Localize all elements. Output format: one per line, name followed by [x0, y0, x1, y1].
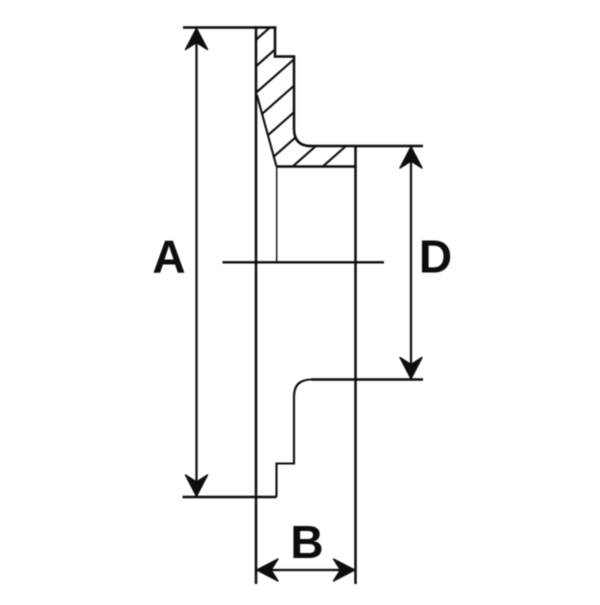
lower flange underside / extension line for D [312, 378, 424, 380]
flange top edge / extension line for D [308, 145, 423, 147]
bore edge (thin) [276, 167, 278, 263]
arrowhead A top [186, 28, 208, 49]
arrowhead D bottom [400, 358, 422, 379]
flange right face / extension line for B [354, 146, 357, 584]
upper right profile (neck, step, fillet) [275, 27, 311, 147]
dimension line B [257, 569, 356, 571]
arrowhead D top [400, 147, 422, 168]
top face edge / extension line for A [183, 26, 277, 29]
dimension line A [195, 29, 197, 496]
svg-text:A: A [152, 231, 185, 283]
arrowhead B right [334, 559, 355, 581]
dimension line D [410, 148, 412, 379]
svg-text:B: B [290, 516, 323, 568]
svg-text:D: D [419, 231, 452, 283]
flange underside edge (sectioned half) [277, 165, 356, 167]
hatching of sectioned upper half [248, 0, 362, 232]
centerline [223, 261, 385, 263]
body left edge / extension line for B [255, 26, 258, 584]
taper edge of sectioned hub [257, 95, 277, 167]
arrowhead B left [257, 559, 278, 581]
bottom face edge / extension line for A [183, 496, 277, 499]
arrowhead A bottom [186, 475, 208, 496]
lower half profile (fillet, steps) [277, 380, 312, 498]
